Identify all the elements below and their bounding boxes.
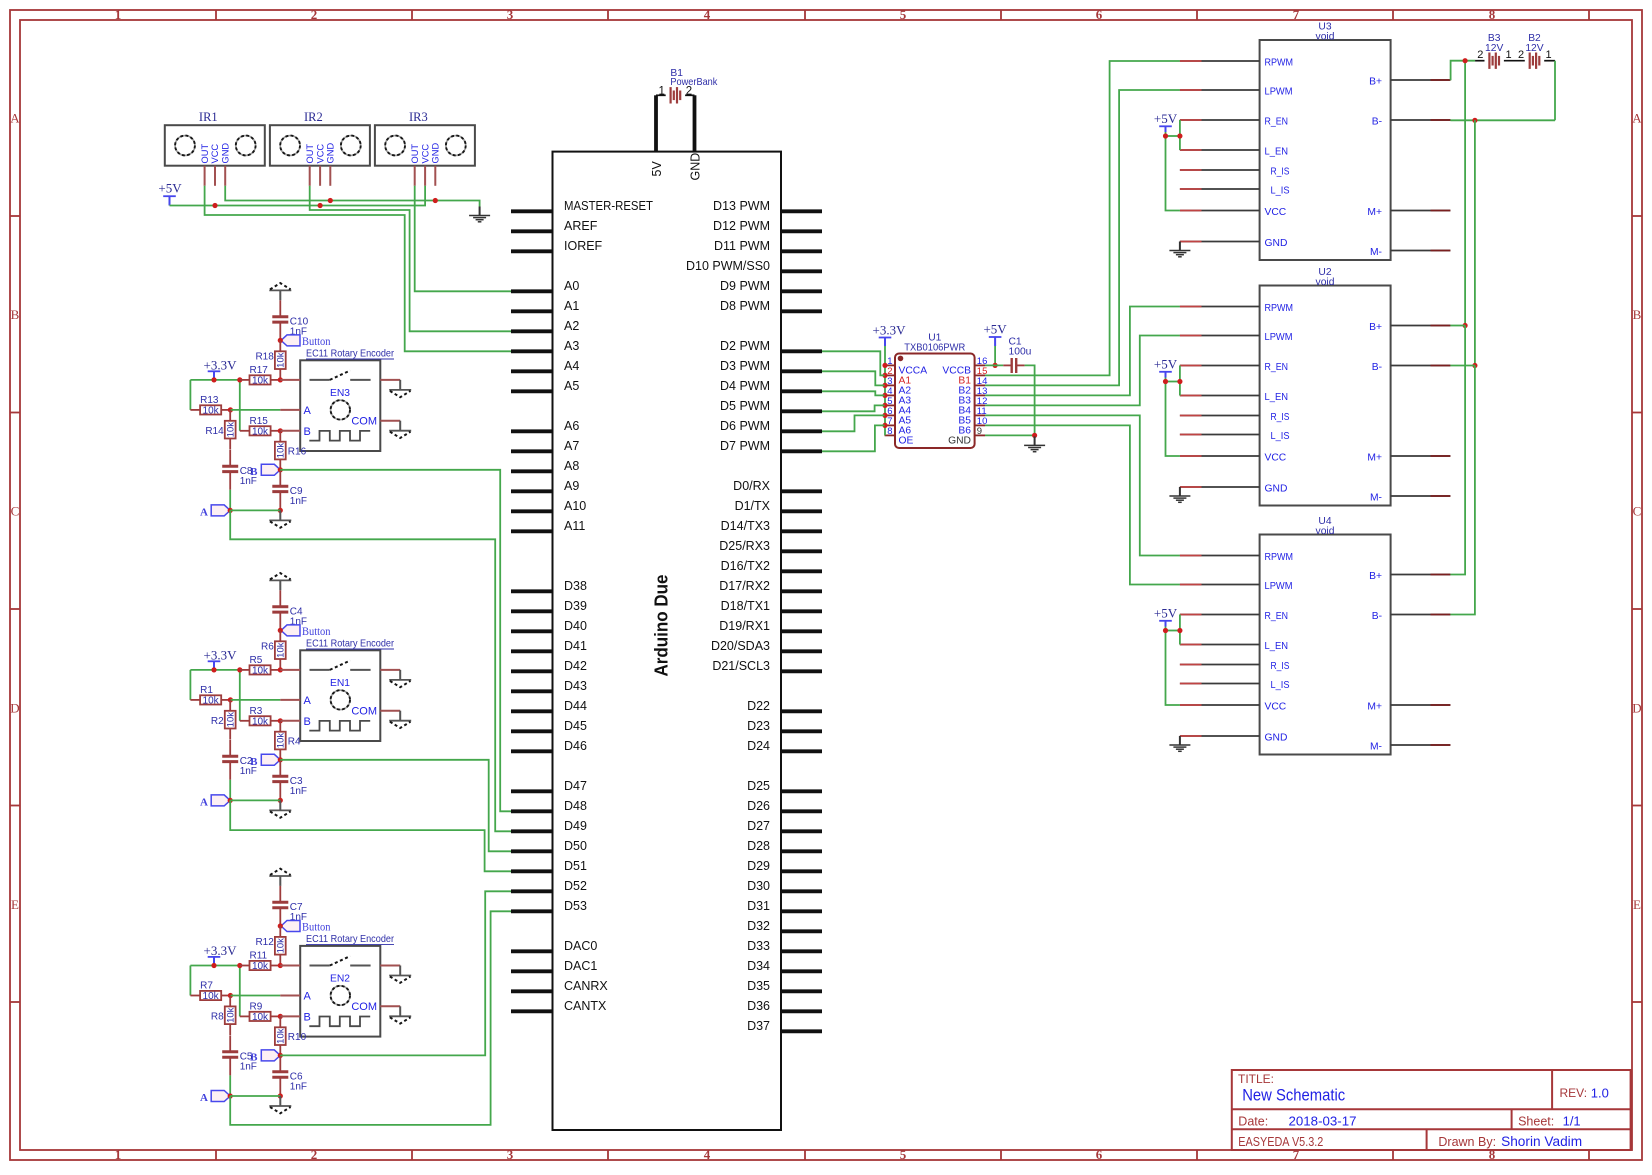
- svg-text:M-: M-: [1370, 742, 1382, 753]
- svg-text:R_IS: R_IS: [1271, 412, 1290, 423]
- svg-text:D41: D41: [564, 639, 587, 653]
- svg-text:D22: D22: [747, 699, 770, 713]
- svg-text:4: 4: [704, 1147, 711, 1162]
- svg-text:D34: D34: [747, 959, 770, 973]
- svg-text:D50: D50: [564, 839, 587, 853]
- svg-text:R16: R16: [288, 446, 307, 457]
- svg-text:MASTER-RESET: MASTER-RESET: [564, 199, 653, 213]
- svg-text:D3 PWM: D3 PWM: [720, 359, 770, 373]
- svg-text:10k: 10k: [276, 733, 287, 749]
- svg-text:+5V: +5V: [983, 322, 1007, 337]
- svg-text:VCC: VCC: [1265, 702, 1287, 713]
- svg-text:GND: GND: [948, 435, 971, 446]
- svg-text:R2: R2: [211, 716, 224, 727]
- svg-text:IR2: IR2: [304, 110, 323, 124]
- svg-text:M+: M+: [1367, 702, 1382, 713]
- svg-text:+3.3V: +3.3V: [204, 943, 238, 958]
- svg-text:D9 PWM: D9 PWM: [720, 279, 770, 293]
- svg-text:D24: D24: [747, 739, 770, 753]
- svg-text:D18/TX1: D18/TX1: [721, 599, 770, 613]
- svg-text:R3: R3: [250, 706, 263, 717]
- svg-text:10k: 10k: [203, 696, 220, 707]
- svg-text:D: D: [10, 701, 19, 716]
- svg-text:6: 6: [1096, 1147, 1103, 1162]
- svg-text:L_EN: L_EN: [1265, 392, 1289, 403]
- svg-text:EC11 Rotary Encoder: EC11 Rotary Encoder: [306, 639, 394, 650]
- svg-text:+3.3V: +3.3V: [873, 323, 907, 338]
- svg-text:D47: D47: [564, 779, 587, 793]
- svg-text:10k: 10k: [276, 642, 287, 658]
- svg-text:R10: R10: [288, 1032, 307, 1043]
- svg-text:A: A: [10, 111, 20, 126]
- svg-text:OE: OE: [899, 435, 914, 446]
- svg-text:R18: R18: [255, 351, 274, 362]
- svg-text:R17: R17: [250, 365, 269, 376]
- svg-text:R_IS: R_IS: [1271, 661, 1290, 672]
- svg-text:GND: GND: [1265, 484, 1288, 495]
- svg-text:IOREF: IOREF: [564, 239, 603, 253]
- svg-text:100u: 100u: [1009, 347, 1032, 358]
- svg-text:A: A: [200, 797, 208, 809]
- svg-text:RPWM: RPWM: [1265, 303, 1294, 314]
- svg-text:Button: Button: [302, 336, 331, 348]
- svg-text:D26: D26: [747, 799, 770, 813]
- svg-text:CANRX: CANRX: [564, 979, 608, 993]
- svg-text:1: 1: [115, 7, 122, 22]
- svg-text:D48: D48: [564, 799, 587, 813]
- svg-text:L_IS: L_IS: [1271, 186, 1290, 197]
- svg-text:GND: GND: [431, 143, 441, 164]
- svg-text:D12 PWM: D12 PWM: [713, 219, 770, 233]
- svg-text:+3.3V: +3.3V: [204, 647, 238, 662]
- svg-text:VCC: VCC: [1265, 453, 1287, 464]
- svg-text:10k: 10k: [226, 1007, 237, 1023]
- svg-text:D32: D32: [747, 919, 770, 933]
- svg-text:D7 PWM: D7 PWM: [720, 439, 770, 453]
- svg-text:D19/RX1: D19/RX1: [719, 619, 770, 633]
- svg-text:B+: B+: [1369, 571, 1382, 582]
- svg-text:CANTX: CANTX: [564, 999, 607, 1013]
- svg-text:A: A: [200, 1092, 208, 1104]
- svg-text:R_IS: R_IS: [1271, 167, 1290, 178]
- svg-text:EN2: EN2: [330, 974, 350, 985]
- svg-text:D27: D27: [747, 819, 770, 833]
- svg-text:D13 PWM: D13 PWM: [713, 199, 770, 213]
- svg-text:D2 PWM: D2 PWM: [720, 339, 770, 353]
- svg-text:A: A: [304, 991, 312, 1003]
- svg-text:5: 5: [900, 1147, 907, 1162]
- svg-text:D16/TX2: D16/TX2: [721, 559, 770, 573]
- svg-text:D31: D31: [747, 899, 770, 913]
- svg-text:1nF: 1nF: [240, 476, 257, 487]
- svg-text:A11: A11: [564, 519, 585, 533]
- svg-text:A: A: [200, 507, 208, 519]
- svg-text:D23: D23: [747, 719, 770, 733]
- svg-text:1nF: 1nF: [290, 496, 307, 507]
- svg-text:COM: COM: [351, 1001, 377, 1013]
- svg-text:R9: R9: [250, 1002, 263, 1013]
- svg-text:B: B: [304, 1011, 311, 1023]
- svg-text:TITLE:: TITLE:: [1238, 1072, 1274, 1086]
- svg-text:R14: R14: [205, 426, 224, 437]
- svg-text:D33: D33: [747, 939, 770, 953]
- svg-text:L_IS: L_IS: [1271, 431, 1290, 442]
- svg-text:D35: D35: [747, 979, 770, 993]
- svg-text:1: 1: [1545, 49, 1551, 61]
- svg-text:+3.3V: +3.3V: [204, 357, 238, 372]
- svg-text:A8: A8: [564, 459, 579, 473]
- svg-text:1nF: 1nF: [290, 1081, 307, 1092]
- svg-text:OUT: OUT: [200, 144, 210, 164]
- svg-text:Date:: Date:: [1238, 1115, 1268, 1129]
- svg-text:1/1: 1/1: [1563, 1114, 1581, 1129]
- svg-text:LPWM: LPWM: [1265, 87, 1293, 98]
- svg-text:RPWM: RPWM: [1265, 552, 1294, 563]
- svg-text:VCC: VCC: [210, 144, 220, 164]
- svg-text:+5V: +5V: [1154, 357, 1178, 372]
- svg-text:R7: R7: [200, 981, 213, 992]
- svg-text:E: E: [11, 897, 19, 912]
- svg-text:8: 8: [887, 426, 892, 437]
- svg-text:M+: M+: [1367, 207, 1382, 218]
- svg-text:3: 3: [507, 7, 514, 22]
- svg-text:R6: R6: [261, 641, 274, 652]
- svg-text:+5V: +5V: [1154, 606, 1178, 621]
- svg-text:10k: 10k: [226, 712, 237, 728]
- svg-text:10k: 10k: [203, 991, 220, 1002]
- svg-text:D5 PWM: D5 PWM: [720, 399, 770, 413]
- svg-text:GND: GND: [326, 143, 336, 164]
- svg-text:D30: D30: [747, 879, 770, 893]
- svg-text:R11: R11: [250, 951, 268, 962]
- svg-text:C: C: [11, 504, 20, 519]
- svg-text:A5: A5: [564, 379, 579, 393]
- svg-text:D14/TX3: D14/TX3: [721, 519, 770, 533]
- svg-text:+5V: +5V: [158, 181, 182, 196]
- svg-text:R13: R13: [200, 395, 219, 406]
- svg-text:A: A: [1632, 111, 1642, 126]
- svg-text:Drawn By:: Drawn By:: [1438, 1135, 1496, 1149]
- svg-text:D43: D43: [564, 679, 587, 693]
- svg-text:A6: A6: [564, 419, 579, 433]
- svg-text:Arduino Due: Arduino Due: [652, 575, 672, 677]
- svg-text:Button: Button: [302, 626, 331, 638]
- svg-text:B-: B-: [1372, 117, 1382, 128]
- svg-text:R_EN: R_EN: [1265, 611, 1289, 622]
- svg-text:12V: 12V: [1525, 43, 1543, 54]
- svg-text:5V: 5V: [650, 161, 664, 177]
- svg-text:D25: D25: [747, 779, 770, 793]
- svg-text:D29: D29: [747, 859, 770, 873]
- svg-text:4: 4: [704, 7, 711, 22]
- svg-text:B: B: [11, 307, 20, 322]
- svg-text:2: 2: [1477, 49, 1483, 61]
- svg-text:D38: D38: [564, 579, 587, 593]
- svg-text:COM: COM: [351, 706, 377, 718]
- svg-text:10k: 10k: [252, 426, 269, 437]
- svg-text:D4 PWM: D4 PWM: [720, 379, 770, 393]
- svg-text:AREF: AREF: [564, 219, 598, 233]
- svg-text:EN1: EN1: [330, 678, 350, 689]
- svg-text:TXB0106PWR: TXB0106PWR: [904, 343, 965, 354]
- svg-text:2: 2: [311, 1147, 318, 1162]
- svg-text:B+: B+: [1369, 77, 1382, 88]
- svg-text:1: 1: [115, 1147, 122, 1162]
- svg-text:C: C: [1633, 504, 1642, 519]
- svg-text:D25/RX3: D25/RX3: [719, 539, 770, 553]
- svg-text:IR3: IR3: [409, 110, 428, 124]
- svg-text:D20/SDA3: D20/SDA3: [711, 639, 770, 653]
- svg-text:+5V: +5V: [1154, 111, 1178, 126]
- svg-text:EN3: EN3: [330, 388, 350, 399]
- svg-text:E: E: [1633, 897, 1641, 912]
- svg-text:D1/TX: D1/TX: [735, 499, 771, 513]
- svg-text:M+: M+: [1367, 453, 1382, 464]
- svg-text:A4: A4: [564, 359, 579, 373]
- svg-text:R15: R15: [250, 416, 269, 427]
- svg-text:GND: GND: [220, 143, 230, 164]
- svg-text:GND: GND: [1265, 238, 1288, 249]
- svg-text:D11 PWM: D11 PWM: [714, 239, 770, 253]
- svg-text:D39: D39: [564, 599, 587, 613]
- svg-text:2018-03-17: 2018-03-17: [1289, 1114, 1357, 1129]
- svg-text:R1: R1: [200, 685, 213, 696]
- svg-text:GND: GND: [1265, 733, 1288, 744]
- svg-text:Button: Button: [302, 922, 331, 934]
- svg-text:D8 PWM: D8 PWM: [720, 299, 770, 313]
- svg-text:COM: COM: [351, 416, 377, 428]
- svg-text:D45: D45: [564, 719, 587, 733]
- svg-text:D17/RX2: D17/RX2: [719, 579, 770, 593]
- svg-text:D28: D28: [747, 839, 770, 853]
- svg-text:OUT: OUT: [410, 144, 420, 164]
- svg-text:L_EN: L_EN: [1265, 641, 1289, 652]
- svg-text:R8: R8: [211, 1012, 224, 1023]
- svg-text:R_EN: R_EN: [1265, 362, 1289, 373]
- svg-text:10k: 10k: [226, 422, 237, 438]
- svg-text:void: void: [1316, 526, 1335, 537]
- svg-text:R_EN: R_EN: [1265, 117, 1289, 128]
- svg-text:D21/SCL3: D21/SCL3: [712, 659, 770, 673]
- svg-text:R4: R4: [288, 736, 301, 747]
- svg-text:EASYEDA V5.3.2: EASYEDA V5.3.2: [1238, 1135, 1323, 1149]
- svg-text:1: 1: [1505, 49, 1511, 61]
- svg-text:void: void: [1316, 31, 1335, 42]
- svg-text:D49: D49: [564, 819, 587, 833]
- svg-text:D10 PWM/SS0: D10 PWM/SS0: [686, 259, 770, 273]
- svg-text:B: B: [1633, 307, 1642, 322]
- svg-text:LPWM: LPWM: [1265, 581, 1293, 592]
- svg-text:10k: 10k: [252, 376, 269, 387]
- svg-text:10k: 10k: [252, 1012, 269, 1023]
- svg-text:R5: R5: [250, 655, 263, 666]
- svg-text:6: 6: [1096, 7, 1103, 22]
- svg-text:D44: D44: [564, 699, 587, 713]
- svg-text:New Schematic: New Schematic: [1242, 1087, 1345, 1105]
- svg-text:GND: GND: [689, 153, 703, 181]
- svg-text:D42: D42: [564, 659, 587, 673]
- svg-text:1nF: 1nF: [290, 786, 307, 797]
- svg-text:A9: A9: [564, 479, 579, 493]
- svg-text:OUT: OUT: [305, 144, 315, 164]
- svg-text:1nF: 1nF: [240, 766, 257, 777]
- svg-text:D51: D51: [564, 859, 587, 873]
- svg-text:A1: A1: [564, 299, 579, 313]
- svg-text:10k: 10k: [203, 406, 220, 417]
- svg-text:D40: D40: [564, 619, 587, 633]
- svg-text:D36: D36: [747, 999, 770, 1013]
- svg-text:D52: D52: [564, 879, 587, 893]
- svg-text:10k: 10k: [276, 938, 287, 954]
- svg-text:D: D: [1632, 701, 1641, 716]
- svg-text:5: 5: [900, 7, 907, 22]
- svg-text:9: 9: [977, 426, 982, 437]
- svg-text:void: void: [1316, 277, 1335, 288]
- svg-text:3: 3: [507, 1147, 514, 1162]
- svg-text:DAC1: DAC1: [564, 959, 597, 973]
- svg-text:1: 1: [658, 85, 664, 97]
- svg-text:Sheet:: Sheet:: [1518, 1115, 1554, 1129]
- svg-text:B+: B+: [1369, 322, 1382, 333]
- svg-text:RPWM: RPWM: [1265, 58, 1294, 69]
- svg-text:10k: 10k: [276, 352, 287, 368]
- svg-text:10k: 10k: [276, 443, 287, 459]
- svg-text:L_IS: L_IS: [1271, 680, 1290, 691]
- svg-text:M-: M-: [1370, 247, 1382, 258]
- svg-text:A0: A0: [564, 279, 579, 293]
- svg-text:B: B: [304, 426, 311, 438]
- svg-text:A2: A2: [564, 319, 579, 333]
- svg-text:D53: D53: [564, 899, 587, 913]
- svg-text:IR1: IR1: [199, 110, 218, 124]
- svg-text:R12: R12: [255, 937, 274, 948]
- svg-text:M-: M-: [1370, 493, 1382, 504]
- svg-text:2: 2: [311, 7, 318, 22]
- svg-text:A: A: [304, 405, 312, 417]
- svg-text:D46: D46: [564, 739, 587, 753]
- svg-text:VCC: VCC: [1265, 207, 1287, 218]
- svg-text:EC11 Rotary Encoder: EC11 Rotary Encoder: [306, 934, 394, 945]
- svg-text:A7: A7: [564, 439, 579, 453]
- svg-text:10k: 10k: [276, 1028, 287, 1044]
- svg-text:A: A: [304, 695, 312, 707]
- svg-text:A3: A3: [564, 339, 579, 353]
- svg-text:1nF: 1nF: [240, 1061, 257, 1072]
- svg-text:VCC: VCC: [420, 144, 430, 164]
- svg-text:B-: B-: [1372, 611, 1382, 622]
- svg-text:12V: 12V: [1485, 43, 1503, 54]
- svg-text:2: 2: [1518, 49, 1524, 61]
- svg-text:REV:: REV:: [1560, 1086, 1588, 1100]
- svg-text:10k: 10k: [252, 961, 269, 972]
- svg-text:10k: 10k: [252, 716, 269, 727]
- svg-text:D6 PWM: D6 PWM: [720, 419, 770, 433]
- svg-text:A10: A10: [564, 499, 586, 513]
- svg-text:DAC0: DAC0: [564, 939, 597, 953]
- svg-text:PowerBank: PowerBank: [670, 77, 718, 88]
- svg-text:10k: 10k: [252, 666, 269, 677]
- svg-text:B: B: [304, 716, 311, 728]
- svg-text:LPWM: LPWM: [1265, 332, 1293, 343]
- svg-text:1.0: 1.0: [1591, 1086, 1609, 1101]
- svg-text:Shorin Vadim: Shorin Vadim: [1501, 1134, 1582, 1149]
- svg-text:B-: B-: [1372, 362, 1382, 373]
- svg-text:8: 8: [1489, 7, 1496, 22]
- svg-text:VCC: VCC: [315, 144, 325, 164]
- svg-text:EC11 Rotary Encoder: EC11 Rotary Encoder: [306, 349, 394, 360]
- svg-text:D37: D37: [747, 1019, 770, 1033]
- svg-text:7: 7: [1293, 7, 1300, 22]
- svg-text:L_EN: L_EN: [1265, 147, 1289, 158]
- svg-text:D0/RX: D0/RX: [733, 479, 770, 493]
